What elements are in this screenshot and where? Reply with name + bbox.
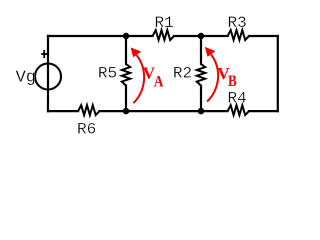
svg-text:R1: R1 xyxy=(155,14,174,32)
svg-text:B: B xyxy=(228,73,237,90)
svg-text:R4: R4 xyxy=(228,89,247,107)
svg-text:Vg: Vg xyxy=(16,68,36,87)
svg-text:R5: R5 xyxy=(98,65,117,83)
svg-text:R2: R2 xyxy=(173,65,192,83)
svg-text:R6: R6 xyxy=(77,121,96,139)
svg-text:A: A xyxy=(154,73,164,90)
svg-text:R3: R3 xyxy=(228,14,247,32)
